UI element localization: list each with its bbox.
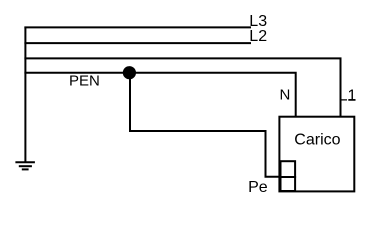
svg-text:PEN: PEN	[69, 73, 100, 90]
svg-text:L1: L1	[339, 88, 357, 105]
svg-text:Carico: Carico	[294, 132, 340, 149]
wire L1	[24, 58, 340, 116]
wire PE	[130, 73, 281, 177]
svg-text:N: N	[280, 87, 291, 104]
PE terminal lower square	[281, 177, 296, 191]
wire L2	[24, 42, 251, 44]
svg-text:L2: L2	[249, 28, 267, 45]
wire PEN	[24, 72, 129, 74]
load box U1 Carico	[279, 117, 354, 192]
ground	[15, 162, 35, 169]
wire N	[130, 73, 296, 117]
wire L3	[24, 26, 251, 28]
wire left bus vertical	[24, 27, 26, 163]
PE terminal upper square	[281, 161, 296, 177]
svg-text:Pe: Pe	[248, 179, 268, 196]
junction dot PEN node	[123, 66, 136, 79]
